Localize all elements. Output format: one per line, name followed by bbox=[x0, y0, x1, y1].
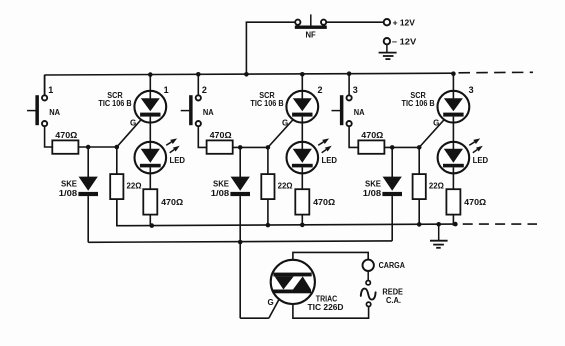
junction 22ohm2 on ground bus bbox=[266, 223, 271, 228]
wire NA1 to resistor bbox=[45, 126, 53, 147]
svg-text:TIC 226D: TIC 226D bbox=[308, 303, 344, 312]
svg-text:22Ω: 22Ω bbox=[429, 182, 445, 191]
svg-text:− 12V: − 12V bbox=[392, 38, 417, 47]
junction 22ohm3 on ground bus bbox=[417, 222, 422, 227]
junction SKE node (stage 2) bbox=[238, 145, 243, 150]
junction trigger bus / gate column bbox=[238, 240, 243, 245]
label SCR TIC 106 B (stage 2) bbox=[250, 91, 283, 108]
wire ground bus dashed continuation bbox=[463, 223, 537, 225]
svg-text:NA: NA bbox=[49, 108, 60, 117]
svg-text:3: 3 bbox=[469, 85, 474, 95]
label TRIAC TIC 226D bbox=[308, 295, 344, 313]
LED D3 bbox=[438, 142, 470, 174]
label SCR TIC 106 B (stage 3) bbox=[402, 91, 435, 108]
junction NF branch on top bus bbox=[244, 72, 249, 77]
wire resistor to gate node (stage 1) bbox=[78, 146, 116, 148]
SCR U3 TIC 106 B bbox=[438, 91, 470, 123]
svg-text:470Ω: 470Ω bbox=[210, 131, 233, 140]
LED D2 bbox=[287, 142, 319, 174]
svg-text:1/08: 1/08 bbox=[211, 189, 230, 198]
wire top bus dashed continuation bbox=[459, 71, 534, 74]
resistor 22&#937; (stage 2) bbox=[261, 174, 293, 199]
svg-text:1/08: 1/08 bbox=[59, 189, 78, 198]
label SCR3 number bbox=[469, 85, 474, 95]
diode SKE 1/08 (stage 2) bbox=[211, 147, 250, 198]
wire triac gate diagonal bbox=[269, 292, 283, 318]
terminal CARGA bbox=[363, 260, 406, 271]
label G of triac bbox=[267, 298, 273, 307]
LED2 emission arrows bbox=[318, 138, 332, 152]
wire NF branch horizontal bbox=[246, 21, 296, 23]
wire main column stage 1 bbox=[149, 75, 151, 226]
wire resistor to gate node (stage 3) bbox=[384, 146, 419, 148]
diode SKE 1/08 (stage 3) bbox=[363, 147, 402, 198]
svg-text:470Ω: 470Ω bbox=[55, 131, 78, 140]
SCR U2 TIC 106 B bbox=[286, 91, 318, 123]
wire gate column to gate elbow bbox=[240, 317, 269, 319]
wire NF branch vertical bbox=[245, 22, 247, 74]
ac source REDE C.A. bbox=[361, 288, 404, 305]
wire top bus to NA1 bbox=[44, 75, 46, 96]
junction NA2 on top bus bbox=[196, 72, 201, 77]
triac TIC 226D bbox=[271, 260, 315, 304]
LED3 emission arrows bbox=[469, 138, 483, 152]
wire top-left drop to NA1 bbox=[44, 75, 46, 96]
svg-text:+ 12V: + 12V bbox=[393, 18, 416, 27]
LED1 emission arrows bbox=[166, 138, 180, 152]
svg-text:470Ω: 470Ω bbox=[313, 198, 336, 207]
label G of SCR3 bbox=[433, 119, 439, 128]
wire top bus to NA2 bbox=[197, 74, 199, 95]
junction SKE node (stage 1) bbox=[86, 145, 91, 150]
svg-text:470Ω: 470Ω bbox=[464, 198, 487, 207]
svg-text:470Ω: 470Ω bbox=[361, 131, 384, 140]
wire SKE1 to trigger bus bbox=[87, 196, 89, 242]
wire NA2 to resistor bbox=[198, 126, 206, 147]
svg-text:SKE: SKE bbox=[213, 180, 230, 189]
svg-text:SKE: SKE bbox=[61, 180, 78, 189]
terminal REDE top bbox=[366, 281, 370, 285]
junction gate node (stage 1) bbox=[115, 145, 120, 150]
svg-text:NA: NA bbox=[203, 108, 214, 117]
junction SKE node (stage 3) bbox=[390, 145, 395, 150]
SCR U1 TIC 106 B bbox=[134, 91, 166, 123]
resistor 470&#937; (stage 3, series) bbox=[358, 131, 384, 154]
junction SCR2 on top bus bbox=[300, 72, 305, 77]
wire NF to +12V bbox=[326, 21, 383, 23]
svg-text:LED: LED bbox=[170, 156, 186, 165]
junction SCR3 on top bus bbox=[451, 71, 456, 76]
terminal +12V bbox=[384, 18, 416, 27]
wire top bus to NA3 bbox=[348, 74, 350, 96]
wire gate diagonal SCR3 bbox=[419, 117, 447, 148]
terminal REDE bottom bbox=[366, 302, 370, 306]
pushbutton NA2 (labels 2, NA) bbox=[181, 85, 214, 126]
wire NA3 to resistor bbox=[349, 126, 358, 147]
svg-text:G: G bbox=[433, 119, 439, 128]
junction gate node (stage 3) bbox=[417, 145, 422, 150]
wire SKE3 to trigger bus bbox=[391, 196, 393, 241]
svg-text:NF: NF bbox=[306, 30, 316, 39]
wire 22&#937; column (stage 1) bbox=[116, 147, 118, 225]
junction SCR1 on top bus bbox=[148, 72, 153, 77]
wire SKE2 to triac gate column bbox=[239, 196, 241, 318]
wire trigger bus (bottom bus 2) bbox=[88, 241, 392, 242]
wire main column stage 2 bbox=[301, 74, 303, 225]
wire top bus bbox=[45, 73, 454, 75]
svg-text:22Ω: 22Ω bbox=[127, 182, 143, 191]
svg-text:3: 3 bbox=[353, 85, 358, 95]
wire CARGA to REDE terminal bbox=[367, 271, 369, 280]
svg-text:G: G bbox=[130, 119, 136, 128]
terminal -12V bbox=[384, 38, 417, 47]
svg-text:NA: NA bbox=[354, 108, 365, 117]
diode SKE 1/08 (stage 1) bbox=[59, 147, 98, 198]
LED D1 bbox=[135, 142, 167, 174]
wire triac MT2 to CARGA bbox=[293, 252, 368, 273]
svg-text:TIC 106 B: TIC 106 B bbox=[402, 99, 435, 108]
resistor 22&#937; (stage 1) bbox=[110, 174, 142, 199]
label LED (stage 3) bbox=[473, 156, 489, 165]
junction LED2 column on ground bus bbox=[300, 223, 305, 228]
junction LED3 column on ground bus bbox=[453, 222, 458, 227]
junction ground symbol on ground bus bbox=[436, 222, 441, 227]
junction NA3 on top bus bbox=[347, 71, 352, 76]
svg-text:C.A.: C.A. bbox=[386, 296, 401, 305]
wire 22&#937; column (stage 2) bbox=[267, 147, 269, 225]
svg-text:2: 2 bbox=[318, 85, 323, 95]
svg-text:CARGA: CARGA bbox=[379, 261, 405, 270]
label G of SCR1 bbox=[130, 119, 136, 128]
wire ground bus (bottom bus 1) bbox=[117, 199, 456, 226]
label SCR2 number bbox=[318, 85, 323, 95]
svg-text:1: 1 bbox=[164, 85, 169, 95]
wire resistor to gate node (stage 2) bbox=[233, 146, 268, 148]
svg-text:22Ω: 22Ω bbox=[278, 182, 294, 191]
svg-text:G: G bbox=[282, 119, 288, 128]
svg-text:470Ω: 470Ω bbox=[161, 198, 184, 207]
label SCR TIC 106 B (stage 1) bbox=[98, 91, 131, 108]
wire gate diagonal SCR1 bbox=[117, 117, 144, 147]
wire triac MT1 to bottom bbox=[293, 291, 369, 319]
svg-text:LED: LED bbox=[473, 156, 489, 165]
svg-text:TIC 106 B: TIC 106 B bbox=[98, 99, 131, 108]
ground (power) bbox=[379, 44, 397, 59]
svg-text:1/08: 1/08 bbox=[363, 189, 382, 198]
junction gate node (stage 2) bbox=[266, 145, 271, 150]
svg-text:1: 1 bbox=[48, 85, 53, 95]
wire 22&#937; column (stage 3) bbox=[418, 147, 420, 225]
wire gate diagonal SCR2 bbox=[268, 117, 296, 148]
junction LED1 column on ground bus bbox=[150, 223, 155, 228]
svg-text:TIC 106 B: TIC 106 B bbox=[250, 99, 283, 108]
label G of SCR2 bbox=[282, 119, 288, 128]
switch NF bbox=[295, 14, 327, 39]
label SCR1 number bbox=[164, 85, 169, 95]
resistor 470&#937; (stage 1, series) bbox=[52, 131, 78, 154]
pushbutton NA3 (labels 3, NA) bbox=[332, 85, 365, 126]
ground (main) bbox=[430, 224, 448, 248]
svg-text:2: 2 bbox=[202, 85, 207, 95]
svg-text:G: G bbox=[267, 298, 273, 307]
resistor 470&#937; (stage 2, LED) bbox=[295, 189, 335, 214]
label LED (stage 2) bbox=[322, 156, 338, 165]
pushbutton NA1 (labels 1, NA) bbox=[27, 85, 60, 126]
svg-text:SKE: SKE bbox=[365, 180, 382, 189]
resistor 22&#937; (stage 3) bbox=[413, 174, 445, 199]
svg-text:LED: LED bbox=[322, 156, 338, 165]
resistor 470&#937; (stage 3, LED) bbox=[446, 189, 486, 214]
resistor 470&#937; (stage 2, series) bbox=[207, 131, 233, 154]
wire main column stage 3 bbox=[452, 74, 454, 226]
resistor 470&#937; (stage 1, LED) bbox=[143, 189, 183, 214]
label LED (stage 1) bbox=[170, 156, 186, 165]
